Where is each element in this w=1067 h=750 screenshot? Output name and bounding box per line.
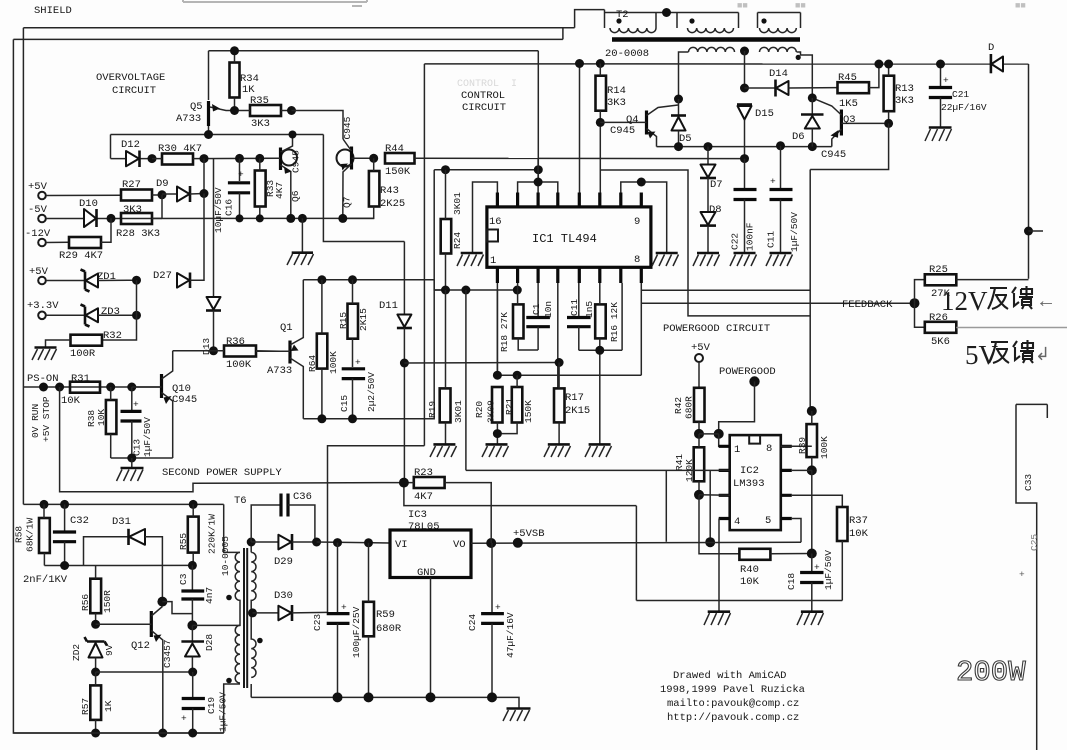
- wire R41 to R40: [699, 495, 739, 554]
- node D13 R36: [209, 346, 218, 355]
- svg-text:R15: R15: [338, 312, 349, 329]
- svg-text:1: 1: [490, 255, 496, 267]
- wire pin1 rail: [434, 289, 517, 291]
- svg-text:1n5: 1n5: [584, 301, 595, 318]
- wire pg node tie: [699, 434, 730, 446]
- svg-text:10K: 10K: [740, 576, 760, 588]
- node Q12 collector D31: [157, 597, 167, 607]
- svg-text:150K: 150K: [385, 166, 411, 178]
- wire R24 feed: [434, 170, 538, 290]
- wire pin6 to R37: [792, 495, 843, 507]
- svg-text:R44: R44: [385, 143, 404, 155]
- svg-text:R64: R64: [307, 355, 318, 372]
- resistor R37: [837, 507, 869, 601]
- resistor R59: [363, 543, 402, 698]
- wire Q1 emitter rail: [303, 280, 434, 419]
- ground R20: [482, 444, 509, 457]
- wire R27 junction drop: [161, 195, 163, 219]
- resistor R55: [178, 504, 218, 565]
- svg-text:R14: R14: [607, 85, 626, 97]
- node R13 top: [884, 60, 893, 69]
- svg-text:R58: R58: [14, 526, 25, 543]
- node 5VSB rail pg: [705, 537, 715, 547]
- node net170 x538: [534, 165, 543, 174]
- wire 5vsb input rail: [317, 542, 390, 543]
- svg-text:C3: C3: [178, 573, 189, 585]
- wire ps-on R37 link: [404, 483, 637, 506]
- svg-text:■■: ■■: [1015, 1, 1026, 11]
- node PS-ON a: [39, 383, 48, 392]
- node D9 out: [200, 189, 209, 198]
- svg-text:R30 4K7: R30 4K7: [158, 143, 202, 155]
- glyph fan1: [988, 288, 1008, 309]
- node C13 bottom: [127, 454, 136, 463]
- terminal +5V a: [28, 181, 48, 199]
- node pin1 rail a: [441, 286, 450, 295]
- wire VO jog: [490, 483, 492, 543]
- svg-text:+: +: [181, 713, 187, 724]
- node R40 right C18: [807, 549, 817, 559]
- capacitor C16: [213, 158, 250, 233]
- node C3 bottom tap: [187, 620, 197, 630]
- svg-text:+5V STOP: +5V STOP: [41, 396, 52, 442]
- node R57 bottom: [91, 729, 100, 738]
- resistor R21: [497, 375, 534, 433]
- terminal +5VSB: [513, 528, 545, 548]
- svg-text:+5V: +5V: [29, 266, 49, 278]
- capacitor C1: [526, 283, 554, 350]
- node R64 top: [317, 275, 326, 284]
- ground pin16: [457, 253, 484, 266]
- capacitor C18: [786, 550, 834, 612]
- svg-text:C945: C945: [291, 150, 302, 173]
- terminal +5V pg: [691, 342, 711, 362]
- node T6 polarity c: [257, 638, 263, 644]
- capacitor C11b: [766, 146, 801, 253]
- resistor R38: [86, 387, 116, 458]
- ground R19: [430, 444, 457, 457]
- resistor R57: [80, 672, 114, 733]
- resistor R17: [554, 363, 590, 445]
- node VO: [486, 538, 496, 548]
- svg-text:C21: C21: [952, 89, 969, 100]
- node ZD3 out: [132, 311, 141, 320]
- svg-text:D30: D30: [274, 590, 293, 602]
- node C15 bottom: [348, 414, 357, 423]
- resistor R43: [343, 158, 405, 218]
- resistor R26: [915, 303, 957, 348]
- resistor R30: [152, 143, 280, 165]
- ground R16 net: [585, 444, 612, 457]
- svg-text:R29 4K7: R29 4K7: [59, 250, 103, 262]
- zener ZD3: [46, 305, 137, 327]
- svg-text:100K: 100K: [226, 359, 252, 371]
- node R44 left: [369, 154, 378, 163]
- svg-text:C945: C945: [821, 149, 846, 161]
- svg-text:ZD2: ZD2: [71, 644, 82, 661]
- node C16 bottom: [236, 214, 244, 222]
- wire R26 out gray: [956, 327, 1067, 329]
- node PS-ON b: [55, 383, 64, 392]
- svg-text:ZD3: ZD3: [101, 306, 120, 318]
- node R42 R41: [694, 429, 704, 439]
- capacitor C11a: [567, 283, 595, 350]
- node ZD2 bottom: [91, 668, 100, 677]
- svg-text:SECOND POWER SUPPLY: SECOND POWER SUPPLY: [162, 467, 282, 479]
- svg-text:R55: R55: [178, 533, 189, 550]
- node Q5 emitter R35: [230, 106, 239, 115]
- svg-text:R18 27K: R18 27K: [499, 312, 510, 352]
- svg-text:R16 12K: R16 12K: [609, 302, 620, 342]
- svg-text:100nF: 100nF: [745, 222, 756, 251]
- wire R13 bottom loop: [810, 123, 888, 169]
- wire powergood right edge drop: [809, 170, 811, 412]
- wire pin2 stub drop: [517, 283, 519, 290]
- node R23 left: [399, 478, 409, 488]
- svg-text:68K/1W: 68K/1W: [25, 517, 36, 552]
- node C22 top: [740, 154, 749, 163]
- resistor R35: [239, 95, 292, 130]
- wire pins 10 9 tie: [621, 182, 667, 253]
- svg-text:R56: R56: [80, 594, 91, 611]
- svg-text:CONTROL I: CONTROL I: [457, 79, 517, 90]
- svg-text:1: 1: [734, 444, 740, 456]
- svg-text:C33: C33: [1023, 474, 1034, 491]
- svg-text:2K25: 2K25: [380, 198, 405, 210]
- node pin4 D11 wire: [555, 358, 564, 367]
- wire pin4 ground drop: [718, 519, 720, 612]
- svg-text:LM393: LM393: [733, 478, 765, 490]
- node D28 bottom: [188, 668, 197, 677]
- diode D7: [700, 147, 723, 212]
- svg-text:C945: C945: [172, 394, 197, 406]
- resistor R16: [595, 283, 620, 350]
- svg-text:8: 8: [766, 443, 772, 455]
- svg-text:3K3: 3K3: [607, 97, 626, 109]
- svg-text:2K15: 2K15: [565, 405, 590, 417]
- wire second ps top rail: [23, 503, 223, 505]
- svg-text:C25: C25: [1029, 534, 1040, 551]
- wire pin8 feedback: [641, 283, 914, 375]
- diode D8: [700, 204, 722, 253]
- diode D29: [251, 534, 316, 568]
- zener ZD1: [46, 270, 137, 292]
- svg-text:C945: C945: [342, 116, 353, 139]
- wire pin5 riser: [792, 519, 801, 543]
- svg-text:4: 4: [734, 516, 740, 528]
- diode D11: [379, 242, 412, 483]
- svg-text:R45: R45: [838, 72, 857, 84]
- svg-text:D9: D9: [156, 178, 169, 190]
- wire R16 C11 pin7 tie: [579, 283, 622, 444]
- svg-text:R13: R13: [895, 83, 914, 95]
- svg-text:R57: R57: [80, 698, 91, 715]
- svg-text:R19: R19: [427, 401, 438, 418]
- IC op-amp U2 IC2 LM393: [730, 435, 781, 530]
- node R58 top: [40, 500, 49, 509]
- pins IC2 right: [781, 446, 792, 518]
- node R13 bottom: [884, 119, 893, 128]
- node T6 polarity a: [226, 595, 232, 601]
- capacitor C23: [312, 543, 362, 698]
- svg-text:D27: D27: [153, 270, 172, 282]
- capacitor C15: [339, 357, 377, 419]
- svg-text:R20: R20: [474, 401, 485, 418]
- svg-text:+5V: +5V: [28, 181, 48, 193]
- transistor Q10: [132, 351, 197, 458]
- svg-text:47µF/16V: 47µF/16V: [505, 612, 516, 658]
- wire 5vsb return rail: [251, 697, 519, 708]
- wire PS-ON route down: [60, 387, 404, 492]
- svg-text:10µF/50V: 10µF/50V: [213, 187, 224, 233]
- svg-text:R23: R23: [414, 467, 433, 479]
- node rail C24: [487, 692, 497, 702]
- node C32 top: [60, 500, 69, 509]
- wire pin1 stub drop: [496, 283, 498, 375]
- svg-text:D11: D11: [379, 300, 398, 312]
- resistor R44: [385, 143, 538, 178]
- svg-text:D29: D29: [274, 556, 293, 568]
- node R20 top: [493, 371, 502, 380]
- ground Q6 emitter: [287, 218, 314, 265]
- node pin11 R14 top: [596, 59, 605, 68]
- resistor R13: [884, 64, 914, 123]
- svg-text:1K5: 1K5: [839, 98, 858, 110]
- node pin1 net pg: [714, 429, 724, 439]
- svg-text:R36: R36: [226, 336, 245, 348]
- wire Q10 collector to R36: [173, 350, 214, 352]
- wire pin16 ground route: [473, 182, 498, 253]
- ground D8: [693, 253, 720, 266]
- svg-text:D12: D12: [121, 139, 140, 151]
- node pin9 riser: [637, 178, 646, 187]
- resistor R45: [838, 64, 879, 110]
- resistor R39: [797, 411, 830, 470]
- wire pin2net drop: [465, 290, 467, 470]
- terminal +5V b: [29, 266, 49, 284]
- wire IC3 gnd: [430, 578, 432, 698]
- svg-text:R21: R21: [504, 398, 515, 415]
- node R33 bottom: [256, 214, 264, 222]
- svg-text:POWERGOOD: POWERGOOD: [719, 366, 776, 378]
- svg-text:D: D: [988, 42, 994, 54]
- svg-text:C11: C11: [766, 231, 777, 248]
- svg-text:3K09: 3K09: [486, 400, 497, 423]
- svg-text:+: +: [238, 169, 244, 180]
- svg-text:R39: R39: [797, 437, 808, 454]
- svg-text:R27: R27: [122, 179, 141, 191]
- svg-text:R17: R17: [565, 392, 584, 404]
- node Q6 collector top: [289, 131, 297, 139]
- svg-text:16: 16: [489, 216, 502, 228]
- svg-text:4n7: 4n7: [204, 587, 215, 604]
- node rail GND: [426, 692, 436, 702]
- wire pins 15 14 13 tie: [518, 158, 558, 192]
- diode D5: [671, 99, 692, 147]
- terminal -5V: [28, 204, 48, 222]
- node C16 top: [235, 154, 244, 163]
- transistor Q6: [265, 135, 302, 219]
- svg-text:C23: C23: [312, 614, 323, 631]
- label credits: [660, 670, 805, 724]
- diode D12: [111, 139, 153, 167]
- wire bottom rail second ps: [13, 732, 223, 734]
- svg-text:Q7: Q7: [342, 197, 353, 208]
- zener ZD2: [71, 637, 115, 672]
- node D10 R28: [107, 214, 116, 223]
- resistor R29: [59, 218, 111, 262]
- resistor R56: [80, 565, 113, 624]
- node ZD1 out: [132, 276, 141, 285]
- node R64 bottom: [317, 414, 326, 423]
- svg-text:4K7: 4K7: [414, 491, 433, 503]
- glyph fan2: [989, 342, 1009, 363]
- svg-text:1µF/50V: 1µF/50V: [823, 550, 834, 590]
- node pin12 top: [575, 59, 584, 68]
- svg-text:Q12: Q12: [131, 640, 150, 652]
- svg-text:R31: R31: [71, 373, 90, 385]
- svg-text:+: +: [133, 399, 139, 410]
- node Q4 collector: [674, 95, 683, 104]
- winding T6 secondary: [250, 542, 252, 552]
- node D12 out: [148, 154, 157, 163]
- svg-text:C13: C13: [132, 439, 143, 456]
- wire secondary right lead: [797, 52, 813, 98]
- node rail D6: [808, 142, 817, 151]
- node rail C11b: [776, 141, 785, 150]
- resistor R36: [214, 336, 281, 371]
- resistor R41: [674, 434, 704, 495]
- svg-text:POWERGOOD CIRCUIT: POWERGOOD CIRCUIT: [663, 323, 770, 335]
- svg-text:5: 5: [765, 515, 771, 527]
- wire +5V a to R27: [46, 194, 121, 196]
- node Q3 collector: [808, 93, 817, 102]
- node R14 bottom: [596, 118, 605, 127]
- svg-text:680R: 680R: [376, 623, 402, 635]
- svg-text:C36: C36: [293, 491, 312, 503]
- svg-text:D6: D6: [792, 131, 805, 143]
- svg-text:150K: 150K: [523, 400, 534, 423]
- svg-text:D15: D15: [755, 108, 774, 120]
- resistor R40: [739, 549, 811, 588]
- svg-text:Q5: Q5: [190, 101, 203, 113]
- wire R35 to Q7: [292, 111, 344, 140]
- svg-text:http://pavouk.comp.cz: http://pavouk.comp.cz: [667, 712, 799, 724]
- terminal -12V: [25, 228, 51, 246]
- resistor R24: [441, 170, 463, 290]
- svg-text:100K: 100K: [328, 351, 339, 374]
- capacitor C21: [929, 64, 987, 127]
- svg-text:10n: 10n: [543, 301, 554, 318]
- capacitor C36: [251, 491, 315, 542]
- node R45 top: [874, 60, 883, 69]
- svg-text:IC3: IC3: [408, 509, 427, 521]
- svg-text:1998,1999 Pavel Ruzicka: 1998,1999 Pavel Ruzicka: [660, 684, 805, 696]
- wire frame inner left: [23, 28, 574, 505]
- svg-text:9V: 9V: [104, 644, 115, 656]
- svg-text:C16: C16: [224, 199, 235, 216]
- svg-text:■■: ■■: [795, 1, 806, 11]
- wire -5V rail: [46, 217, 374, 219]
- svg-text:D7: D7: [710, 179, 723, 191]
- wire pin2 net long: [466, 470, 730, 542]
- winding T2 primary: [610, 28, 656, 33]
- svg-text:10K: 10K: [849, 528, 869, 540]
- resistor R64: [307, 280, 339, 419]
- glyph kui1: [1012, 286, 1033, 309]
- wire right drop x1028: [1028, 64, 1030, 279]
- node R56 bottom Q12 base: [91, 620, 100, 629]
- wire POWERGOOD stem: [719, 382, 755, 434]
- wire net134 drop to 241: [323, 135, 404, 242]
- diode D14: [745, 68, 838, 97]
- wire emitter rail y147: [657, 146, 832, 148]
- svg-text:+: +: [1019, 569, 1025, 580]
- wire pin11 branch: [600, 170, 810, 316]
- wire R58 bottom rail: [44, 564, 192, 566]
- node T2 polarity dots: [616, 18, 621, 23]
- svg-text:IC2: IC2: [740, 465, 759, 477]
- terminal POWERGOOD: [719, 366, 776, 387]
- diode D9: [156, 178, 204, 202]
- wire frame outer left: [13, 39, 563, 733]
- ground R32: [32, 348, 57, 361]
- svg-text:2K15: 2K15: [358, 308, 369, 331]
- resistor R58: [14, 504, 50, 565]
- svg-text:1µF/50V: 1µF/50V: [789, 212, 800, 252]
- capacitor C24: [467, 543, 516, 697]
- capacitor C32: [53, 504, 89, 565]
- svg-text:C3457: C3457: [162, 639, 173, 668]
- node x1028 stub: [1024, 227, 1033, 236]
- diode D31: [84, 516, 163, 602]
- ground C21: [925, 128, 952, 142]
- wire vcc rail y63: [424, 63, 1028, 65]
- node gnd stem: [298, 214, 307, 223]
- wire Q5 base drop: [208, 51, 210, 100]
- node C21 top: [936, 60, 945, 69]
- svg-text:R42: R42: [673, 397, 684, 414]
- svg-text:D8: D8: [709, 204, 722, 216]
- svg-text:OVERVOLTAGE: OVERVOLTAGE: [96, 72, 165, 84]
- resistor R42: [673, 362, 705, 434]
- svg-text:D31: D31: [112, 516, 131, 528]
- svg-text:+: +: [355, 357, 361, 368]
- wire -12V to R29: [46, 241, 69, 243]
- wire Q1 collector rail: [303, 279, 434, 281]
- node R55 top: [189, 500, 198, 509]
- wire R37 bottom route: [636, 506, 842, 601]
- artifact gray top strip: [183, 0, 367, 6]
- svg-text:CIRCUIT: CIRCUIT: [462, 102, 506, 114]
- svg-text:Q6: Q6: [290, 190, 301, 202]
- ground IC2 pin4: [704, 612, 731, 625]
- pins IC1 bottom row: [497, 267, 641, 283]
- node D29 in: [247, 538, 256, 547]
- svg-text:C1: C1: [531, 303, 542, 315]
- svg-text:+: +: [770, 176, 776, 187]
- winding T2 drive secondary: [689, 47, 735, 52]
- wire Q10 emitter rail: [111, 457, 173, 459]
- node R31 R38: [106, 383, 115, 392]
- node D14 D15 junction: [740, 84, 749, 93]
- node C36 right: [312, 538, 321, 547]
- svg-text:C18: C18: [786, 573, 797, 590]
- wire frame top step: [563, 10, 605, 40]
- svg-text:Drawed with AmiCAD: Drawed with AmiCAD: [673, 670, 786, 682]
- svg-text:Q1: Q1: [280, 322, 293, 334]
- node T2 secondary polarity: [796, 55, 801, 60]
